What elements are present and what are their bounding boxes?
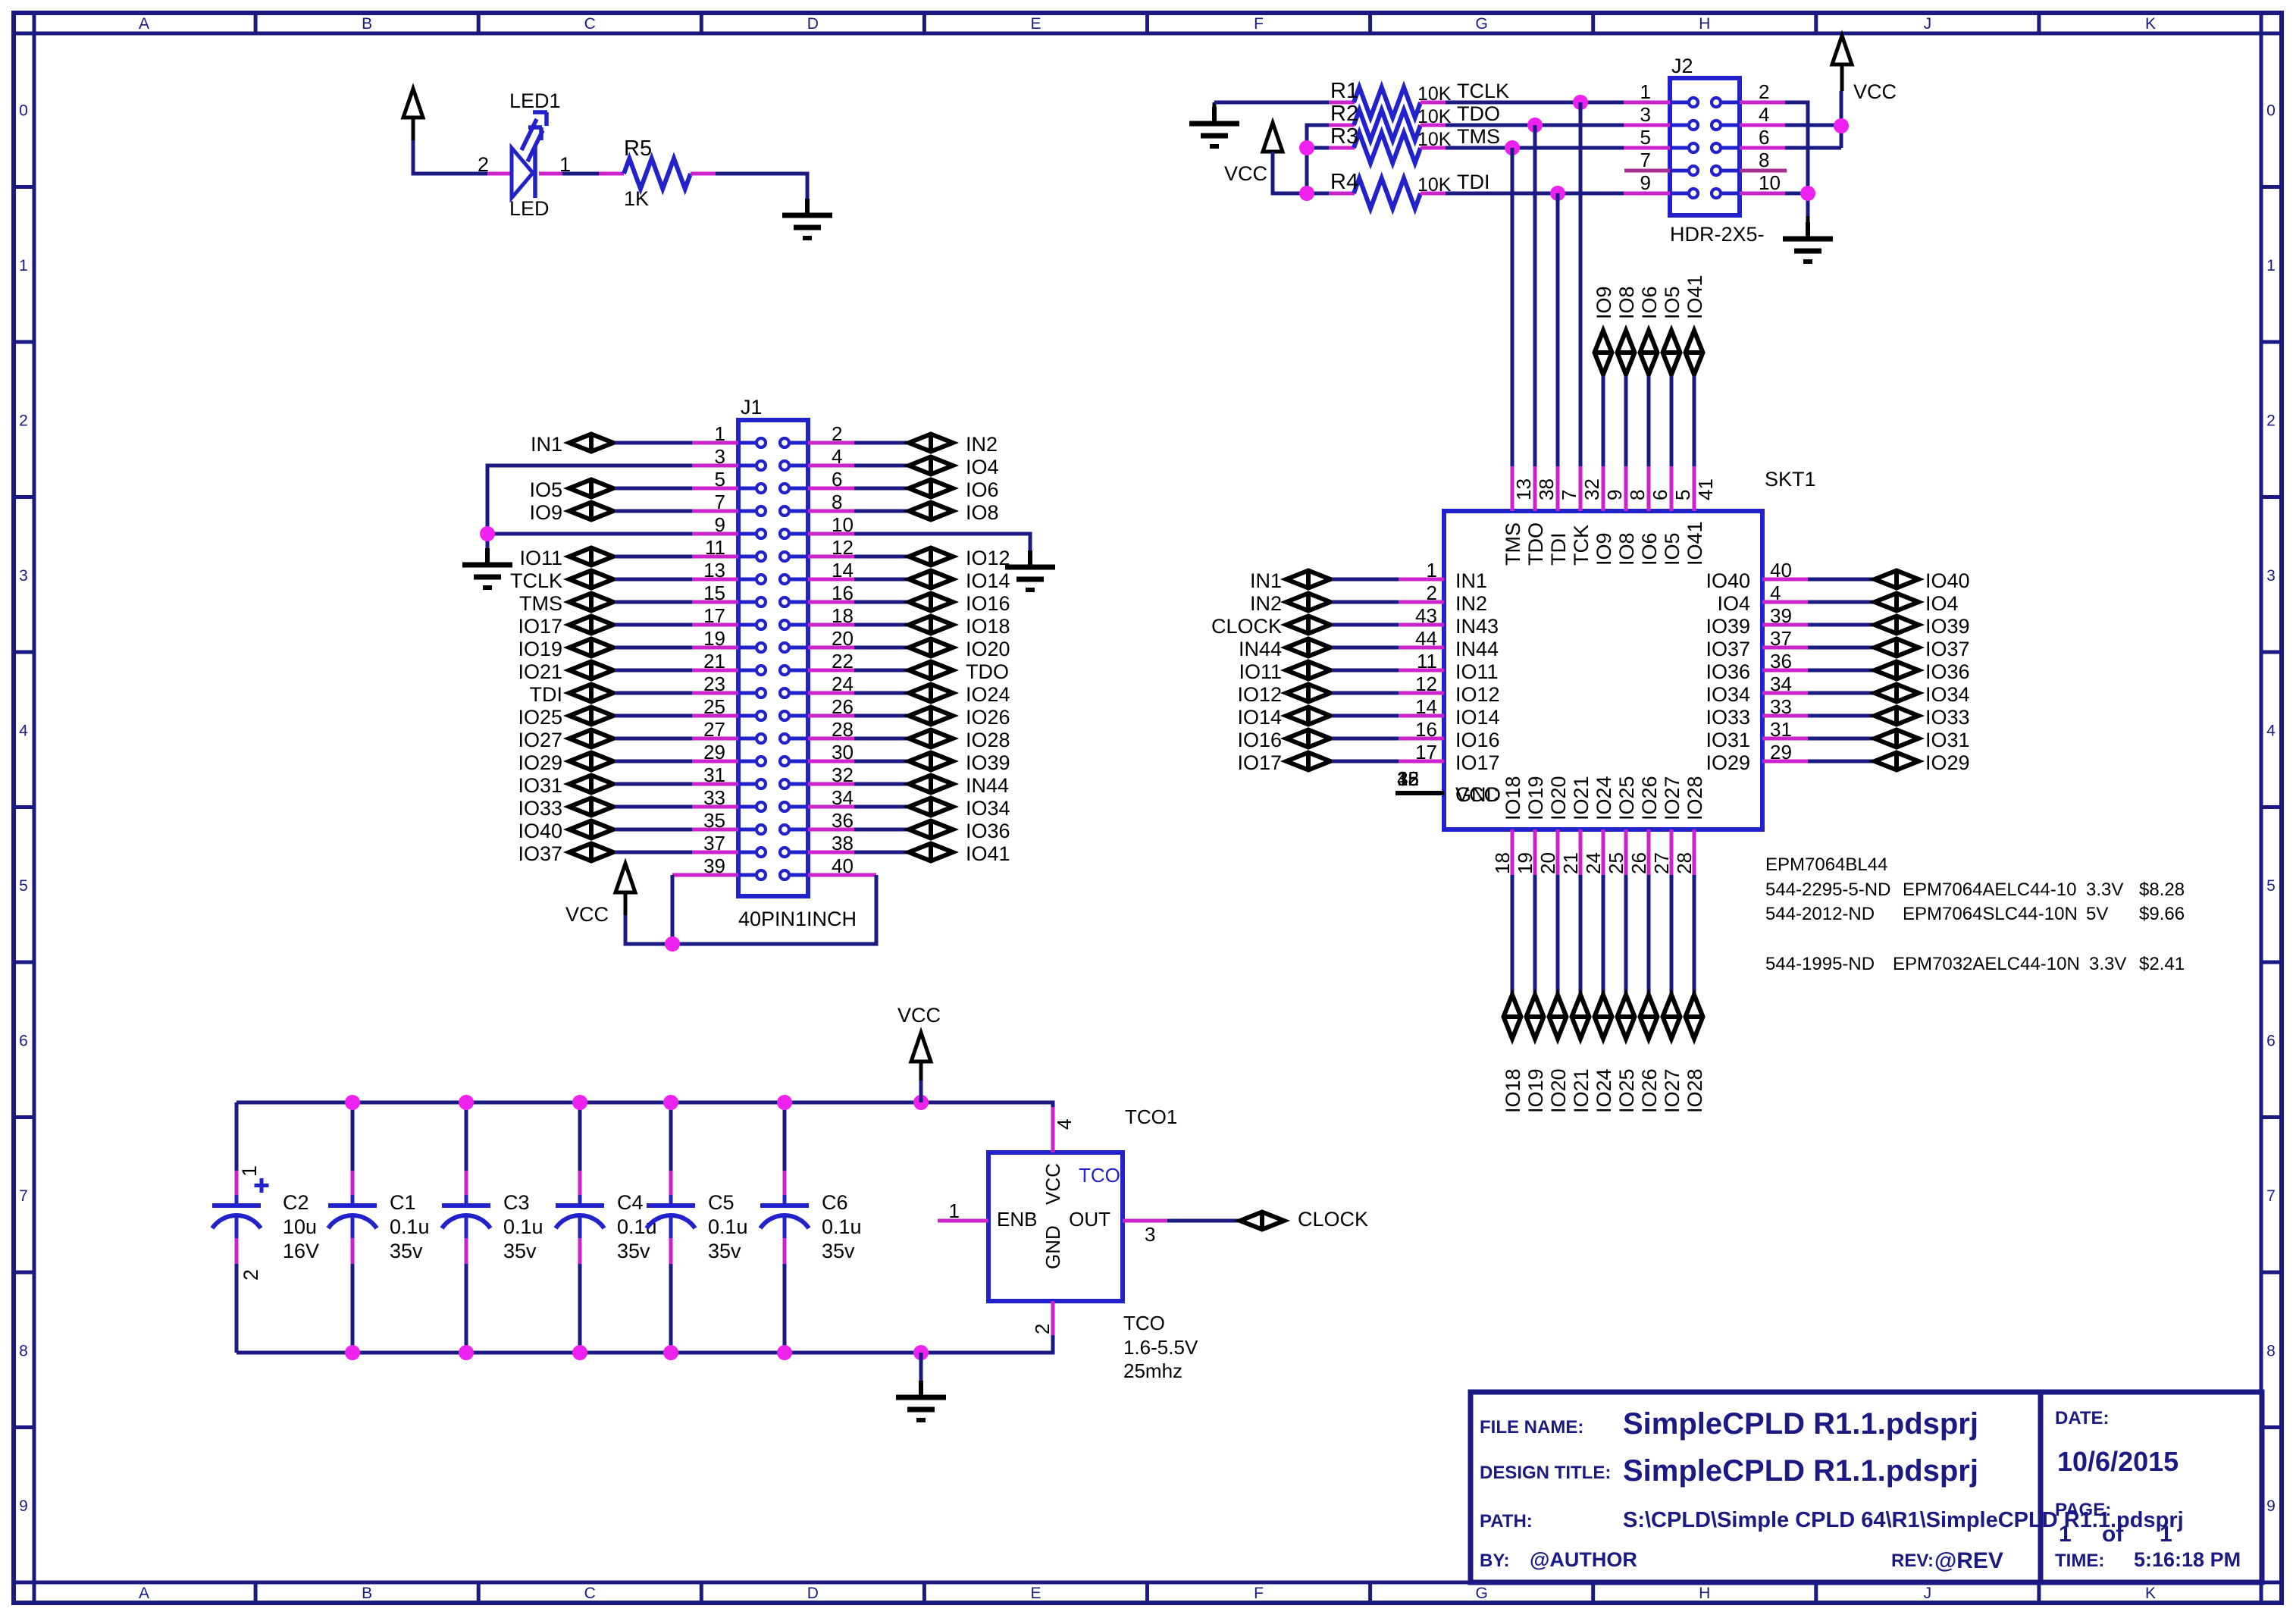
connector J2 pin 3 stub bbox=[1624, 124, 1670, 127]
svg-text:IO25: IO25 bbox=[518, 706, 562, 729]
SKT1 pin 14 (IO14) stub bbox=[1399, 714, 1444, 718]
svg-text:IN1: IN1 bbox=[531, 433, 562, 456]
terminal IO26 (J1 pin 26) bbox=[854, 714, 907, 718]
svg-text:16: 16 bbox=[1415, 718, 1437, 741]
connector J1 pin 30 stub bbox=[808, 760, 854, 764]
svg-text:4: 4 bbox=[1053, 1119, 1076, 1130]
connector J1 pin 31 stub bbox=[692, 782, 738, 786]
svg-text:16: 16 bbox=[832, 582, 854, 604]
svg-text:CLOCK: CLOCK bbox=[1298, 1208, 1368, 1231]
svg-text:K: K bbox=[2145, 1585, 2156, 1602]
wire IO19 to terminal bbox=[1533, 875, 1537, 993]
SKT1 pin 27 (IO27) stub bbox=[1670, 829, 1674, 875]
ground (J1 left) bbox=[485, 548, 490, 565]
oscillator TCO1 pin 1 stub (ENB) bbox=[938, 1219, 988, 1223]
wire IO14 to SKT1 bbox=[1332, 714, 1399, 718]
wire IO41 to SKT1 bbox=[1693, 376, 1696, 466]
svg-text:2: 2 bbox=[1031, 1324, 1054, 1334]
svg-text:1: 1 bbox=[2059, 1522, 2072, 1547]
wire IO6 to SKT1 bbox=[1647, 376, 1651, 466]
SKT1 pin 9 (IO9) stub bbox=[1602, 466, 1605, 511]
wire VCC to R2/R3/R4 bbox=[1273, 152, 1307, 193]
svg-text:28: 28 bbox=[1673, 852, 1696, 874]
svg-text:IO6: IO6 bbox=[966, 478, 999, 501]
junction J2 pin 4 VCC bbox=[1834, 118, 1849, 133]
svg-text:C3: C3 bbox=[503, 1191, 530, 1214]
wire J1 pins 3,9 to ground bbox=[487, 466, 692, 534]
svg-text:33: 33 bbox=[703, 786, 725, 809]
svg-text:TCO: TCO bbox=[1123, 1312, 1165, 1334]
svg-text:3: 3 bbox=[19, 567, 28, 585]
svg-text:EPM7064BL44: EPM7064BL44 bbox=[1765, 854, 1887, 875]
ground (R1 input) bbox=[1212, 107, 1217, 124]
svg-text:OUT: OUT bbox=[1069, 1208, 1110, 1231]
svg-text:IN1: IN1 bbox=[1250, 569, 1282, 592]
svg-text:IO41: IO41 bbox=[1684, 274, 1706, 319]
connector J1 pin 32 stub bbox=[808, 782, 854, 786]
svg-text:C4: C4 bbox=[617, 1191, 644, 1214]
svg-text:R2: R2 bbox=[1330, 102, 1358, 126]
svg-text:LED: LED bbox=[509, 197, 550, 220]
svg-text:8: 8 bbox=[1626, 490, 1649, 500]
wire IO12 to SKT1 bbox=[1332, 691, 1399, 695]
svg-text:35v: 35v bbox=[503, 1240, 537, 1262]
svg-text:IO33: IO33 bbox=[1706, 706, 1750, 729]
terminal IO27 (bottom) bbox=[1663, 995, 1680, 1039]
svg-text:C: C bbox=[584, 1585, 596, 1602]
svg-text:IO19: IO19 bbox=[1524, 776, 1547, 820]
svg-text:1.6-5.5V: 1.6-5.5V bbox=[1123, 1336, 1198, 1359]
wire TDO net to J2 pin 3 bbox=[1446, 124, 1624, 127]
svg-text:FILE NAME:: FILE NAME: bbox=[1480, 1417, 1583, 1438]
junction J1 ground net bbox=[480, 526, 495, 541]
svg-text:IO8: IO8 bbox=[1615, 532, 1638, 566]
wire ground to R1 bbox=[1213, 102, 1217, 107]
svg-text:IO33: IO33 bbox=[518, 797, 562, 820]
connector J2 pin 2 stub bbox=[1740, 101, 1785, 105]
svg-text:IO28: IO28 bbox=[966, 729, 1010, 751]
terminal IO24 (bottom) bbox=[1595, 995, 1612, 1039]
svg-text:0.1u: 0.1u bbox=[617, 1215, 657, 1238]
svg-text:R4: R4 bbox=[1330, 170, 1358, 194]
svg-text:G: G bbox=[1475, 1585, 1487, 1602]
ground (decoupling rail) bbox=[919, 1353, 923, 1381]
connector J1 bbox=[738, 420, 808, 896]
SKT1 pin 8 (IO8) stub bbox=[1624, 466, 1628, 511]
wire VCC to LED1 anode bbox=[413, 140, 487, 174]
resistor R5 bbox=[624, 158, 691, 189]
terminal IN44 (J1 pin 32) bbox=[854, 782, 907, 786]
SKT1 pin 18 (IO18) stub bbox=[1511, 829, 1514, 875]
svg-text:1: 1 bbox=[2160, 1522, 2172, 1547]
svg-text:6: 6 bbox=[1759, 126, 1769, 149]
svg-text:IO20: IO20 bbox=[966, 638, 1010, 660]
svg-text:35v: 35v bbox=[390, 1240, 423, 1262]
wire IO11 to SKT1 bbox=[1332, 669, 1399, 673]
svg-text:6: 6 bbox=[19, 1032, 28, 1049]
svg-text:31: 31 bbox=[1770, 718, 1792, 741]
svg-text:IO16: IO16 bbox=[966, 592, 1010, 615]
svg-text:5: 5 bbox=[715, 468, 725, 491]
svg-text:TMS: TMS bbox=[519, 592, 562, 615]
svg-text:TCO1: TCO1 bbox=[1125, 1105, 1177, 1128]
svg-text:37: 37 bbox=[703, 832, 725, 854]
SKT1 pin 21 (IO21) stub bbox=[1579, 829, 1583, 875]
power VCC (LED1 supply) bbox=[403, 89, 423, 118]
svg-text:25: 25 bbox=[1605, 852, 1627, 874]
svg-text:DESIGN TITLE:: DESIGN TITLE: bbox=[1480, 1463, 1611, 1483]
svg-text:8: 8 bbox=[2266, 1342, 2276, 1359]
svg-text:4: 4 bbox=[19, 722, 28, 739]
svg-text:IO31: IO31 bbox=[1925, 729, 1970, 751]
connector J2 pin 8 stub (n.c.) bbox=[1740, 169, 1787, 173]
svg-text:CLOCK: CLOCK bbox=[1211, 615, 1282, 638]
svg-text:IO39: IO39 bbox=[1925, 615, 1970, 638]
svg-text:IO18: IO18 bbox=[1502, 776, 1524, 820]
svg-text:9: 9 bbox=[1640, 171, 1651, 194]
wire CLOCK to SKT1 bbox=[1332, 623, 1399, 627]
svg-text:10u: 10u bbox=[283, 1215, 317, 1238]
svg-text:PATH:: PATH: bbox=[1480, 1511, 1533, 1532]
svg-text:VCC: VCC bbox=[1042, 1163, 1064, 1205]
svg-text:VCC: VCC bbox=[1224, 162, 1267, 185]
svg-text:IO5: IO5 bbox=[1661, 532, 1684, 566]
svg-text:IN1: IN1 bbox=[1455, 569, 1487, 592]
svg-text:31: 31 bbox=[703, 764, 725, 786]
svg-text:ENB: ENB bbox=[997, 1208, 1037, 1231]
wire J2 pins 2,10 to ground bbox=[1785, 102, 1808, 216]
junction VCC loop bbox=[665, 936, 680, 952]
SKT1 pin 29 (IO29) stub bbox=[1762, 760, 1808, 764]
svg-text:H: H bbox=[1699, 1585, 1710, 1602]
svg-text:IO20: IO20 bbox=[1547, 776, 1570, 820]
wire IN1 to SKT1 bbox=[1332, 578, 1399, 582]
terminal IO24 (J1 pin 24) bbox=[854, 691, 907, 695]
resistor R2 bbox=[1354, 110, 1421, 140]
connector J1 pin 3 stub bbox=[692, 464, 738, 468]
connector J1 pin 4 stub bbox=[808, 464, 854, 468]
resistor R4 bbox=[1354, 178, 1421, 209]
svg-text:SKT1: SKT1 bbox=[1765, 468, 1816, 491]
connector J1 pin 1 stub bbox=[692, 441, 738, 445]
svg-text:IO31: IO31 bbox=[518, 774, 562, 797]
terminal CLOCK (TCO output) bbox=[1240, 1212, 1284, 1230]
connector J1 pin 23 stub bbox=[692, 691, 738, 695]
svg-text:18: 18 bbox=[832, 604, 854, 627]
SKT1 pin 16 (IO16) stub bbox=[1399, 737, 1444, 741]
svg-text:35v: 35v bbox=[822, 1240, 855, 1262]
connector J1 pin 33 stub bbox=[692, 805, 738, 809]
oscillator TCO1 bbox=[988, 1152, 1123, 1301]
terminal IO37 (SKT1 right) bbox=[1808, 646, 1873, 650]
svg-text:IO25: IO25 bbox=[1615, 776, 1638, 820]
svg-text:13: 13 bbox=[703, 559, 725, 582]
svg-text:LED1: LED1 bbox=[509, 89, 561, 112]
junction R4 left bbox=[1299, 186, 1314, 201]
svg-text:IO26: IO26 bbox=[1638, 1068, 1661, 1113]
svg-text:IO9: IO9 bbox=[529, 501, 562, 524]
svg-text:TDI: TDI bbox=[530, 683, 563, 706]
svg-text:C1: C1 bbox=[390, 1191, 416, 1214]
svg-text:IO33: IO33 bbox=[1925, 706, 1970, 729]
terminal IO6 (J1 pin 6) bbox=[854, 487, 907, 491]
svg-text:EPM7064SLC44-10N: EPM7064SLC44-10N bbox=[1903, 904, 2078, 924]
svg-text:D: D bbox=[807, 15, 819, 33]
svg-text:11: 11 bbox=[1417, 650, 1437, 673]
power VCC (decoupling rail) bbox=[911, 1033, 931, 1061]
svg-text:A: A bbox=[139, 1585, 149, 1602]
svg-text:TDO: TDO bbox=[966, 660, 1009, 683]
resistor R1 right stub bbox=[1421, 101, 1446, 105]
svg-text:R3: R3 bbox=[1330, 124, 1358, 149]
svg-text:IO29: IO29 bbox=[518, 751, 562, 774]
svg-text:8: 8 bbox=[1759, 149, 1769, 171]
wire IO37 to J1 bbox=[615, 851, 692, 854]
svg-text:0: 0 bbox=[19, 102, 28, 119]
svg-text:14: 14 bbox=[832, 559, 854, 582]
svg-text:IO24: IO24 bbox=[966, 683, 1010, 706]
terminal IO39 (J1 pin 30) bbox=[854, 760, 907, 764]
svg-text:IO37: IO37 bbox=[1706, 638, 1750, 660]
svg-text:IO36: IO36 bbox=[966, 820, 1010, 842]
wire IO27 to terminal bbox=[1670, 875, 1674, 993]
wire IO9 to J1 bbox=[615, 510, 692, 513]
svg-text:20: 20 bbox=[832, 627, 854, 650]
svg-text:7: 7 bbox=[1558, 490, 1580, 500]
connector J1 pin 17 stub bbox=[692, 623, 738, 627]
wire VCC to J1 pins 39,40 bbox=[624, 892, 628, 915]
wire TDI net bbox=[1556, 193, 1560, 466]
connector J1 pin 20 stub bbox=[808, 646, 854, 650]
svg-text:5V: 5V bbox=[2086, 904, 2108, 924]
svg-text:5: 5 bbox=[1640, 126, 1651, 149]
svg-text:IO14: IO14 bbox=[1455, 706, 1500, 729]
svg-text:J2: J2 bbox=[1671, 55, 1693, 77]
ground (J1 right) bbox=[1028, 550, 1032, 567]
svg-text:40: 40 bbox=[1770, 559, 1792, 582]
connector J1 pin 19 stub bbox=[692, 646, 738, 650]
svg-text:39: 39 bbox=[1770, 604, 1792, 627]
svg-text:IO24: IO24 bbox=[1593, 1068, 1615, 1113]
svg-text:IO12: IO12 bbox=[1455, 683, 1500, 706]
power VCC (R3/R4 pullups) bbox=[1263, 123, 1283, 152]
svg-text:2: 2 bbox=[1759, 80, 1769, 103]
svg-text:6: 6 bbox=[2266, 1032, 2276, 1049]
svg-text:10: 10 bbox=[1759, 171, 1781, 194]
svg-text:IO27: IO27 bbox=[1661, 1068, 1684, 1113]
svg-text:39: 39 bbox=[703, 854, 725, 877]
capacitor C6 bbox=[783, 1102, 787, 1171]
svg-text:13: 13 bbox=[1512, 478, 1535, 500]
svg-text:1: 1 bbox=[2266, 257, 2276, 274]
SKT1 pin 17 (IO17) stub bbox=[1399, 760, 1444, 764]
svg-text:IN2: IN2 bbox=[966, 433, 998, 456]
svg-text:IO41: IO41 bbox=[966, 842, 1010, 865]
terminal TDO (J1 pin 22) bbox=[854, 669, 907, 673]
junction TDI column bbox=[1550, 186, 1565, 201]
svg-text:17: 17 bbox=[1415, 741, 1437, 764]
svg-text:R5: R5 bbox=[624, 136, 652, 161]
svg-text:23: 23 bbox=[703, 673, 725, 695]
svg-text:11: 11 bbox=[705, 536, 725, 559]
SKT1 pin 12 (IO12) stub bbox=[1399, 691, 1444, 695]
svg-text:TCO: TCO bbox=[1079, 1164, 1120, 1187]
svg-text:IO27: IO27 bbox=[1661, 776, 1684, 820]
connector J1 pin 18 stub bbox=[808, 623, 854, 627]
resistor R4 right stub bbox=[1421, 192, 1446, 196]
wire IO25 to terminal bbox=[1624, 875, 1628, 993]
svg-text:SimpleCPLD R1.1.pdsprj: SimpleCPLD R1.1.pdsprj bbox=[1623, 1454, 1978, 1488]
terminal IO34 (J1 pin 34) bbox=[854, 805, 907, 809]
svg-text:5: 5 bbox=[1671, 490, 1694, 500]
SKT1 pin 13 (TMS) stub bbox=[1511, 466, 1514, 511]
terminal IO20 (bottom) bbox=[1549, 995, 1567, 1039]
connector J1 pin 6 stub bbox=[808, 487, 854, 491]
terminal IO18 (bottom) bbox=[1504, 995, 1521, 1039]
terminal IO14 (J1 pin 14) bbox=[854, 578, 907, 582]
connector J1 pin 36 stub bbox=[808, 828, 854, 832]
wire IO31 to J1 bbox=[615, 782, 692, 786]
wire TDI to J1 bbox=[615, 691, 692, 695]
wire VCC rail bbox=[236, 1102, 1053, 1107]
connector J1 pin 26 stub bbox=[808, 714, 854, 718]
svg-text:40PIN1INCH: 40PIN1INCH bbox=[738, 908, 857, 930]
svg-text:8: 8 bbox=[19, 1342, 28, 1359]
junctions on GND rail bbox=[345, 1345, 360, 1360]
svg-text:2: 2 bbox=[2266, 412, 2276, 429]
svg-text:C: C bbox=[584, 15, 596, 33]
svg-text:@REV: @REV bbox=[1934, 1548, 2003, 1573]
svg-text:30: 30 bbox=[832, 741, 854, 764]
SKT1 pin 40 (IO40) stub bbox=[1762, 578, 1808, 582]
svg-text:24: 24 bbox=[1582, 852, 1605, 874]
connector J2 pin 4 stub bbox=[1740, 124, 1785, 127]
svg-text:4: 4 bbox=[1759, 103, 1769, 126]
svg-text:IN2: IN2 bbox=[1455, 592, 1487, 615]
resistor R3 left stub bbox=[1329, 146, 1355, 150]
svg-text:1: 1 bbox=[19, 257, 28, 274]
svg-text:37: 37 bbox=[1770, 627, 1792, 650]
svg-text:E: E bbox=[1030, 15, 1041, 33]
resistor R2 left stub bbox=[1329, 124, 1355, 127]
svg-text:IN44: IN44 bbox=[966, 774, 1009, 797]
resistor R5 right stub bbox=[691, 172, 716, 176]
wire IN1 to J1 bbox=[615, 441, 692, 445]
wire IO27 to J1 bbox=[615, 737, 692, 741]
svg-text:IO28: IO28 bbox=[1684, 1068, 1706, 1113]
wire TMS to J1 bbox=[615, 600, 692, 604]
wire IO5 to SKT1 bbox=[1670, 376, 1674, 466]
wire IO21 to terminal bbox=[1579, 875, 1583, 993]
svg-text:IO12: IO12 bbox=[1237, 683, 1282, 706]
svg-text:IO9: IO9 bbox=[1593, 286, 1615, 319]
connector J1 pin 21 stub bbox=[692, 669, 738, 673]
svg-text:IO11: IO11 bbox=[519, 547, 562, 569]
svg-text:29: 29 bbox=[703, 741, 725, 764]
svg-text:R1: R1 bbox=[1330, 79, 1358, 103]
terminal IO36 (J1 pin 36) bbox=[854, 828, 907, 832]
connector J1 pin 27 stub bbox=[692, 737, 738, 741]
title block bbox=[1471, 1392, 2262, 1582]
svg-text:D: D bbox=[807, 1585, 819, 1602]
svg-text:IO8: IO8 bbox=[1615, 286, 1638, 319]
svg-text:5: 5 bbox=[2266, 877, 2276, 895]
svg-text:IO26: IO26 bbox=[966, 706, 1010, 729]
wire IO17 to J1 bbox=[615, 623, 692, 627]
terminal IO16 (J1 pin 16) bbox=[854, 600, 907, 604]
svg-text:3.3V: 3.3V bbox=[2089, 954, 2126, 974]
svg-text:3: 3 bbox=[715, 445, 725, 468]
svg-text:of: of bbox=[2102, 1522, 2124, 1547]
svg-text:IO31: IO31 bbox=[1706, 729, 1750, 751]
svg-text:35v: 35v bbox=[617, 1240, 650, 1262]
SKT1 pin 38 (TDO) stub bbox=[1533, 466, 1537, 511]
terminal IO39 (SKT1 right) bbox=[1808, 623, 1873, 627]
SKT1 pin 1 (IN1) stub bbox=[1399, 578, 1444, 582]
SKT1 pin 24 (IO24) stub bbox=[1602, 829, 1605, 875]
svg-text:IO4: IO4 bbox=[1717, 592, 1750, 615]
terminal IO26 (bottom) bbox=[1640, 995, 1658, 1039]
svg-text:6: 6 bbox=[832, 468, 842, 491]
svg-text:22: 22 bbox=[832, 650, 854, 673]
wire IN2 to SKT1 bbox=[1332, 600, 1399, 604]
svg-text:21: 21 bbox=[1559, 852, 1582, 874]
svg-text:IO19: IO19 bbox=[1524, 1068, 1547, 1113]
connector J2 pin 9 stub bbox=[1624, 192, 1670, 196]
connector J1 pin 22 stub bbox=[808, 669, 854, 673]
connector J2 pin 1 stub bbox=[1624, 101, 1670, 105]
SKT1 pin 37 (IO37) stub bbox=[1762, 646, 1808, 650]
svg-text:28: 28 bbox=[832, 718, 854, 741]
svg-text:TCLK: TCLK bbox=[1457, 80, 1509, 102]
svg-text:5:16:18 PM: 5:16:18 PM bbox=[2134, 1548, 2241, 1571]
connector J2 pin 10 stub bbox=[1740, 192, 1785, 196]
SKT1 pin 7 (TDI) stub bbox=[1556, 466, 1560, 511]
svg-text:34: 34 bbox=[1770, 673, 1792, 695]
connector J1 pin 28 stub bbox=[808, 737, 854, 741]
svg-text:DATE:: DATE: bbox=[2055, 1408, 2110, 1428]
wire IO33 to J1 bbox=[615, 805, 692, 809]
svg-text:4: 4 bbox=[832, 445, 842, 468]
terminal IO40 (SKT1 right) bbox=[1808, 578, 1873, 582]
wire TCO OUT to CLOCK bbox=[1167, 1219, 1239, 1223]
resistor R1 bbox=[1354, 87, 1421, 118]
connector J1 pin 12 stub bbox=[808, 555, 854, 559]
svg-text:0: 0 bbox=[2266, 102, 2276, 119]
svg-text:33: 33 bbox=[1770, 695, 1792, 718]
SKT1 pin 25 (IO25) stub bbox=[1624, 829, 1628, 875]
wire IO40 to J1 bbox=[615, 828, 692, 832]
SKT1 pin 32 (TCK) stub bbox=[1579, 466, 1583, 511]
connector J1 pin 8 stub bbox=[808, 510, 854, 513]
SKT1 pin 5 (IO5) stub bbox=[1670, 466, 1674, 511]
svg-text:18: 18 bbox=[1491, 852, 1514, 874]
svg-text:24: 24 bbox=[832, 673, 854, 695]
svg-text:17: 17 bbox=[703, 604, 725, 627]
svg-text:IO36: IO36 bbox=[1706, 660, 1750, 683]
terminal IO21 (bottom) bbox=[1572, 995, 1590, 1039]
svg-text:E: E bbox=[1030, 1585, 1041, 1602]
connector J1 pin 38 stub bbox=[808, 851, 854, 854]
svg-text:1K: 1K bbox=[624, 187, 649, 210]
connector J1 pin 14 stub bbox=[808, 578, 854, 582]
svg-text:2: 2 bbox=[832, 422, 842, 445]
svg-text:IO40: IO40 bbox=[518, 820, 562, 842]
SKT1 pin 34 (IO34) stub bbox=[1762, 691, 1808, 695]
terminal IO25 (bottom) bbox=[1618, 995, 1635, 1039]
svg-text:3: 3 bbox=[2266, 567, 2276, 585]
svg-text:1: 1 bbox=[715, 422, 725, 445]
